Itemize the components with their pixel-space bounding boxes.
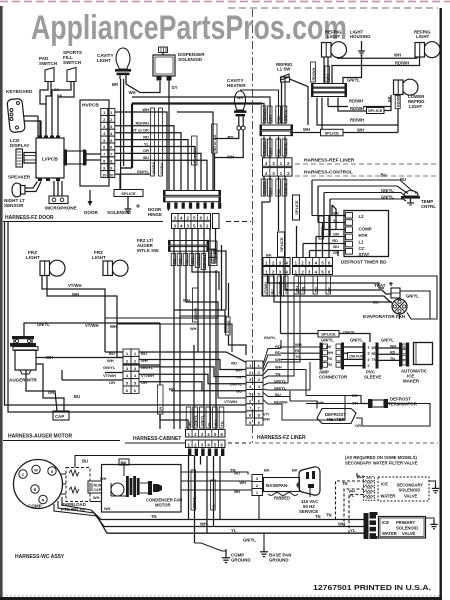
wire frz vt label2 [85, 323, 117, 329]
svg-text:BK: BK [292, 468, 298, 473]
svg-text:WH: WH [107, 358, 114, 363]
wire pad switch drops [40, 82, 74, 121]
svg-text:GN/YL: GN/YL [284, 182, 288, 194]
svg-text:VT or DK: VT or DK [132, 128, 149, 133]
svg-text:WH: WH [200, 522, 207, 527]
svg-text:GN/YL: GN/YL [284, 109, 288, 121]
svg-text:WH: WH [357, 128, 364, 133]
svg-text:RD: RD [277, 116, 281, 122]
svg-text:VT/WH: VT/WH [194, 308, 198, 320]
svg-text:L1: L1 [359, 240, 365, 245]
svg-text:BU: BU [82, 459, 88, 464]
svg-text:CONNECTOR: CONNECTOR [319, 375, 348, 380]
svg-text:RD: RD [228, 135, 234, 140]
svg-text:WATER: WATER [381, 494, 396, 499]
svg-text:GN/YL: GN/YL [321, 338, 334, 343]
border bottom bar [0, 597, 442, 600]
svg-text:10: 10 [102, 172, 107, 177]
section label HARNESS-REF LINER [295, 158, 438, 165]
vertical label YL or BU [192, 136, 198, 165]
svg-text:VALVE: VALVE [402, 531, 416, 536]
svg-text:WH: WH [275, 364, 282, 369]
wire lvpcb to microphone [54, 181, 62, 196]
door lower barstack [168, 240, 209, 252]
auger motor M1 [9, 336, 38, 383]
cavity heater HTR1 [227, 78, 247, 130]
pvc sleeve CN6 [363, 343, 382, 380]
svg-text:SPEAKER: SPEAKER [8, 175, 31, 180]
svg-text:CC: CC [359, 246, 366, 251]
base pan ground [260, 533, 291, 562]
svg-text:RD: RD [277, 189, 281, 195]
door hinge label [148, 207, 170, 217]
svg-text:RD/WH: RD/WH [135, 121, 149, 126]
wire cavity heater RD [215, 130, 239, 140]
vertical labels ref bundle 2 [261, 139, 287, 156]
wire ref bundle mid [264, 137, 285, 158]
svg-text:TN: TN [315, 514, 321, 519]
border left strip [0, 6, 3, 598]
svg-text:WH: WH [326, 74, 330, 81]
svg-text:10: 10 [109, 172, 114, 177]
wire auger OR [26, 370, 57, 411]
svg-text:OR: OR [143, 148, 149, 153]
svg-text:WH: WH [214, 420, 218, 427]
svg-text:MAKER: MAKER [403, 379, 420, 384]
wire ribbed [268, 493, 298, 501]
evaporator fan M2 [363, 299, 407, 319]
svg-text:BU: BU [236, 389, 242, 394]
svg-text:RD/WH: RD/WH [350, 106, 364, 111]
svg-text:AUGER MTR: AUGER MTR [9, 378, 37, 383]
svg-text:CAP: CAP [94, 488, 102, 492]
svg-text:S: S [51, 470, 54, 474]
svg-text:TRAT: TRAT [374, 283, 386, 288]
cavity light bulb LT1 [97, 48, 131, 79]
wire auger conn right runs [139, 352, 246, 391]
wire interlock feeds [210, 251, 226, 310]
svg-text:WH: WH [295, 342, 302, 347]
svg-text:COMP: COMP [28, 504, 42, 509]
divider vertical dash-dot [252, 9, 254, 443]
svg-text:WH: WH [317, 400, 324, 405]
svg-text:RD/WH: RD/WH [350, 118, 364, 123]
svg-text:GN/YL: GN/YL [103, 365, 116, 370]
svg-text:RIBBED: RIBBED [274, 496, 290, 501]
frz light 1 [26, 250, 65, 276]
svg-text:LVPCB: LVPCB [42, 157, 58, 163]
secondary valve box [378, 477, 429, 501]
wire bundle cabinet drops [174, 270, 216, 429]
wire defrost heater runs [290, 391, 430, 426]
wire trunk thick cavity [121, 104, 262, 169]
wire crossings to liner [169, 318, 246, 398]
lvpcb U2 [36, 136, 64, 182]
svg-text:RD: RD [332, 238, 338, 243]
wire control conn drops [297, 216, 339, 258]
wire gnyl fan loop [400, 291, 430, 319]
power plug 115VAC [299, 467, 320, 514]
wire TN label mid [230, 468, 332, 518]
wire gnyl to grounds [195, 538, 257, 552]
svg-text:WH: WH [93, 496, 100, 500]
svg-text:RD/WH: RD/WH [263, 141, 267, 154]
wire rdwh run3 [317, 109, 398, 133]
svg-text:DEFROST TIMER BD: DEFROST TIMER BD [341, 260, 387, 265]
svg-text:WH: WH [269, 148, 273, 155]
svg-text:SOLENOID: SOLENOID [178, 57, 203, 62]
svg-text:3: 3 [403, 345, 405, 349]
wire rdwh run1 [328, 99, 391, 107]
wire rd-bu continue [214, 153, 216, 191]
svg-text:KEYBOARD: KEYBOARD [6, 89, 33, 94]
svg-text:GN/YL: GN/YL [230, 382, 243, 387]
svg-text:VT/WH: VT/WH [264, 282, 268, 294]
splice S7 [281, 275, 357, 338]
svg-text:GN/YL: GN/YL [194, 414, 198, 426]
wire pvc-icemaker runs [379, 345, 400, 362]
wire condenser internals [111, 462, 126, 497]
svg-text:VALVE: VALVE [404, 494, 418, 499]
svg-text:SPLICE: SPLICE [368, 108, 383, 113]
cabinet connector CN3 [186, 430, 226, 457]
svg-text:GROUND: GROUND [269, 558, 289, 563]
splice S6 [278, 232, 285, 257]
wire defrost timer feeds [312, 205, 346, 256]
liner connector labels right [263, 344, 288, 422]
svg-text:SPLICE: SPLICE [121, 191, 136, 196]
ref liner connector 4312 [263, 158, 293, 176]
svg-text:WH: WH [263, 417, 270, 422]
liner connector labels left [224, 361, 242, 405]
svg-text:AUTOMATIC: AUTOMATIC [401, 369, 428, 374]
wire box to basepan [181, 472, 252, 490]
vertical labels cabinet conn [186, 407, 224, 428]
basepan connector [234, 468, 298, 496]
wire auger GN/YL [24, 322, 160, 385]
wire BU2 to temp [318, 173, 408, 223]
svg-text:GY: GY [172, 85, 178, 90]
pad switch SW1 [39, 56, 58, 82]
condenser fan motor M3 [100, 476, 182, 511]
svg-text:DOOR: DOOR [84, 210, 98, 215]
svg-text:YL: YL [212, 503, 216, 509]
splice S5 [293, 195, 300, 220]
wire trunk staircase to door hinge [150, 112, 213, 191]
svg-text:WH: WH [303, 127, 310, 132]
svg-text:RD: RD [231, 361, 237, 366]
svg-text:HARNESS-REF LINER: HARNESS-REF LINER [304, 158, 355, 164]
wire speaker to lvpcb [25, 182, 41, 192]
secondary valve ground [429, 481, 439, 493]
svg-text:TN: TN [151, 514, 157, 519]
svg-text:VT/WH: VT/WH [85, 323, 99, 328]
svg-text:HTR: HTR [359, 233, 369, 238]
svg-text:VT/WH: VT/WH [224, 399, 237, 404]
automatic ice maker box [401, 343, 433, 384]
svg-text:OR: OR [141, 380, 147, 385]
svg-text:WH: WH [142, 107, 149, 112]
dispenser solenoid SOL1 [153, 47, 205, 81]
svg-text:BK: BK [264, 468, 270, 473]
wire lcd to lvpcb [24, 153, 36, 164]
svg-text:RD/WH: RD/WH [349, 99, 363, 104]
svg-text:C: C [22, 473, 25, 477]
condenser BU box [119, 459, 129, 465]
capacitor CAP1 [53, 411, 69, 420]
svg-text:GN/YL: GN/YL [137, 169, 150, 174]
svg-text:RD/WH: RD/WH [395, 61, 409, 66]
svg-text:LIGHT: LIGHT [327, 34, 340, 39]
svg-text:BR: BR [388, 96, 392, 102]
thermostat TRAT [374, 282, 400, 298]
svg-text:YL or BU: YL or BU [193, 147, 197, 163]
svg-text:CNTRL: CNTRL [421, 204, 436, 209]
svg-text:B: B [34, 488, 37, 492]
bus YL [97, 516, 364, 533]
wire hvpcb fanout [115, 107, 150, 174]
svg-text:HARNESS-CABINET: HARNESS-CABINET [133, 436, 181, 442]
frz interlock switch SW3 [137, 238, 217, 266]
svg-text:L2: L2 [359, 214, 365, 219]
wire BU to temp [312, 177, 413, 216]
svg-text:LIGHT: LIGHT [26, 255, 40, 260]
svg-text:RD/WH: RD/WH [397, 94, 401, 107]
wire auger conn left feeds [62, 352, 160, 380]
svg-text:HVPCB: HVPCB [82, 103, 99, 109]
svg-text:RD: RD [327, 357, 333, 361]
defrost heater HTR2 [317, 400, 361, 428]
svg-text:HARNESS-WC ASSY: HARNESS-WC ASSY [15, 554, 65, 560]
svg-text:RD/WH: RD/WH [263, 181, 267, 194]
auger connector labels L [103, 351, 116, 385]
light housing label [350, 30, 371, 56]
footer part number [2, 583, 441, 596]
svg-text:HEATER: HEATER [227, 83, 246, 88]
fuse box [348, 353, 367, 360]
svg-text:CAP: CAP [55, 414, 64, 419]
basepan label box [264, 478, 300, 492]
svg-text:RD: RD [372, 352, 378, 356]
svg-text:SOLENOID: SOLENOID [399, 488, 421, 493]
svg-text:GN/YL: GN/YL [343, 330, 356, 335]
svg-text:OR: OR [109, 380, 115, 385]
wire liner fanout right [263, 283, 345, 420]
wire cavity light WH [126, 79, 160, 95]
watermark AppliancePartsPros.com [31, 9, 347, 47]
section label HARNESS-CABINET [125, 436, 251, 443]
svg-text:BU: BU [381, 173, 387, 178]
vertical labels control bundle [261, 179, 287, 196]
door arrow [84, 190, 98, 215]
temp control TC1 [401, 190, 436, 209]
svg-text:GN/YL: GN/YL [347, 78, 360, 83]
lower refrig light [388, 79, 426, 109]
svg-text:GN/YL: GN/YL [350, 338, 363, 343]
svg-text:VT/WH: VT/WH [68, 283, 82, 288]
svg-text:HARNESS-AUGER MOTOR: HARNESS-AUGER MOTOR [8, 434, 72, 440]
auger connector CN2 [123, 349, 139, 393]
vertical labels ref bundle [261, 106, 287, 123]
svg-text:R: R [42, 499, 45, 503]
svg-text:SECONDARY WATER FILTER VALVE: SECONDARY WATER FILTER VALVE [345, 461, 418, 466]
wire amp-pvc runs [344, 347, 365, 366]
vertical label RD or BU [212, 124, 218, 153]
wire cavity light BR [112, 79, 124, 190]
refrig L1 switch SW4 [276, 62, 308, 125]
vertical label rdwh mid [226, 283, 247, 355]
wire ref bundle corners [132, 77, 285, 124]
svg-text:TN: TN [221, 421, 225, 426]
condenser fan box [102, 465, 182, 513]
vertical label WH wire [151, 108, 164, 176]
svg-text:RD or BU: RD or BU [213, 134, 217, 151]
wire frz lights WH [47, 276, 117, 358]
svg-text:SPLICE: SPLICE [321, 332, 336, 337]
svg-text:12767501 PRINTED IN U.S.A.: 12767501 PRINTED IN U.S.A. [313, 583, 431, 592]
svg-text:BR: BR [112, 82, 118, 87]
svg-text:ICE: ICE [381, 482, 388, 487]
wire long cross 1 [105, 317, 218, 319]
auger connector labels R [141, 351, 154, 385]
svg-text:HARNESS-FZ DOOR: HARNESS-FZ DOOR [5, 215, 54, 221]
svg-text:YL: YL [231, 528, 237, 533]
wire frz lights VT/WH [42, 276, 105, 353]
primary valve connector [364, 512, 378, 539]
wire dispenser GY [169, 81, 178, 192]
door hinge grid rows [172, 214, 220, 229]
primary valve box [379, 517, 426, 539]
section label HARNESS-WC ASSY [15, 554, 65, 560]
svg-text:TN: TN [230, 468, 236, 473]
wire secondary dashes [336, 471, 364, 533]
wire gnyl vertical label [191, 470, 216, 510]
border top dashed line [0, 2, 450, 9]
svg-text:YL: YL [144, 141, 150, 146]
svg-text:WH: WH [100, 477, 107, 481]
svg-text:LIGHT: LIGHT [97, 58, 111, 63]
wire comp loop [54, 497, 97, 516]
svg-text:WH: WH [327, 351, 333, 355]
primary valve ground [426, 518, 438, 529]
svg-text:WH: WH [235, 368, 242, 373]
svg-text:OR: OR [179, 258, 183, 264]
svg-text:WH: WH [269, 115, 273, 122]
vertical labels below control grid [263, 276, 332, 296]
svg-text:LIGHT: LIGHT [92, 255, 106, 260]
wire long cross 2 [117, 324, 232, 352]
microphone MIC [45, 196, 77, 211]
wire gnyl icemaker bus [321, 334, 394, 343]
svg-text:(AS REQUIRED ON SOME MODELS): (AS REQUIRED ON SOME MODELS) [345, 455, 417, 460]
svg-text:TN: TN [372, 358, 377, 362]
svg-text:GN/YL: GN/YL [284, 142, 288, 154]
svg-text:GROUND: GROUND [231, 558, 251, 563]
svg-text:BU: BU [173, 258, 177, 264]
wire cavity heater WH [215, 130, 244, 160]
compressor COMP [14, 460, 63, 509]
vertical label gnyl defrost [319, 216, 324, 239]
svg-text:BU: BU [333, 244, 339, 249]
splice S3 [321, 129, 344, 136]
ref liner barstack [260, 124, 294, 136]
svg-text:TN: TN [327, 363, 332, 367]
speaker LS1 [8, 175, 31, 197]
svg-text:OR: OR [355, 423, 361, 428]
svg-text:L1 SW: L1 SW [277, 67, 291, 72]
svg-text:SPLICE: SPLICE [294, 200, 299, 215]
bus WH [94, 513, 364, 527]
water filter note [345, 455, 418, 466]
run capacitor [88, 481, 102, 493]
svg-text:HOUSING: HOUSING [350, 34, 371, 39]
svg-text:RD/WH: RD/WH [263, 108, 267, 121]
light housing connector [311, 83, 347, 97]
svg-text:WH/BK: WH/BK [152, 161, 156, 174]
refrig light 1 upper [322, 30, 347, 58]
wire RDWH upper [332, 57, 420, 83]
svg-text:BK: BK [188, 421, 192, 427]
wire bulb1 drops [311, 57, 331, 83]
control connector 1234 [263, 253, 333, 275]
wire BU relay top [75, 456, 194, 468]
svg-text:ICE: ICE [382, 520, 389, 525]
svg-text:WH: WH [104, 507, 111, 511]
svg-text:WH: WH [129, 90, 136, 95]
svg-text:WH: WH [275, 357, 282, 362]
svg-text:STAT: STAT [359, 252, 370, 257]
svg-text:WH: WH [183, 298, 190, 303]
svg-text:BH: BH [234, 489, 240, 494]
svg-text:YL: YL [185, 258, 189, 264]
comp ground [222, 549, 251, 563]
svg-text:YL: YL [350, 528, 356, 533]
vertical label WH long [183, 288, 198, 331]
lcd display DS1 [10, 138, 30, 167]
door hinge connector bars [163, 190, 221, 209]
svg-text:BK: BK [326, 345, 332, 349]
wire rdwh run2 [338, 101, 366, 111]
section label HARNESS-FZ DOOR [3, 215, 251, 222]
bus TN [91, 510, 364, 520]
svg-text:HARNESS-CONTROL: HARNESS-CONTROL [304, 170, 353, 176]
svg-text:WH: WH [110, 324, 117, 329]
svg-text:TN: TN [342, 481, 348, 486]
svg-text:WH: WH [295, 286, 299, 293]
night light sensor [4, 198, 25, 208]
svg-text:SOLENOID: SOLENOID [396, 526, 418, 531]
vertical label OR mid [158, 385, 164, 414]
section label HARNESS-FZ LINER [255, 435, 438, 443]
svg-text:GN/YL: GN/YL [243, 538, 256, 543]
section label HARNESS-AUGER MOTOR [3, 434, 120, 441]
svg-text:WH: WH [349, 490, 356, 494]
svg-text:SPLICE: SPLICE [325, 130, 340, 135]
svg-text:RD/WH: RD/WH [312, 67, 316, 80]
vertical labels bundle [171, 248, 217, 269]
svg-text:HINGE: HINGE [148, 212, 162, 217]
svg-text:MOTOR: MOTOR [155, 503, 171, 508]
frz light 2 [92, 250, 128, 276]
svg-text:LIGHT: LIGHT [416, 34, 429, 39]
svg-text:LIGHT: LIGHT [409, 104, 422, 109]
svg-text:TN: TN [326, 513, 332, 518]
defrost timer wire labels [332, 211, 339, 256]
svg-text:HARNESS-FZ LINER: HARNESS-FZ LINER [257, 435, 306, 441]
svg-text:YL: YL [207, 421, 211, 427]
defrost timer U3 [341, 211, 389, 265]
wire relay WH [93, 496, 100, 500]
